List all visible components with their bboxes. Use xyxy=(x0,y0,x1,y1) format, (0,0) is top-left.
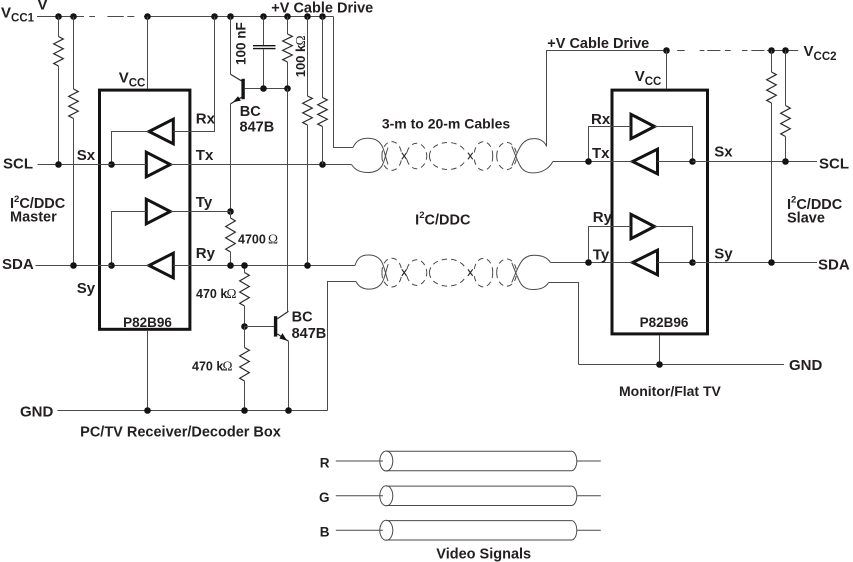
svg-text:Slave: Slave xyxy=(787,210,825,226)
svg-text:+V Cable Drive: +V Cable Drive xyxy=(271,0,373,16)
buffer U1 Rx (points left) xyxy=(149,119,173,144)
svg-text:Sy: Sy xyxy=(714,245,733,262)
svg-text:470 k: 470 k xyxy=(196,287,227,301)
wire rail2 right solid xyxy=(767,50,798,52)
svg-text:SCL: SCL xyxy=(3,156,33,173)
wire GND up to cable-2 lower entry xyxy=(328,282,357,411)
node rail1-Q1C xyxy=(227,13,234,20)
wire video R left lead xyxy=(336,460,383,462)
svg-text:VCC2: VCC2 xyxy=(804,43,837,63)
wire SCL right segment xyxy=(693,161,818,163)
node R6-SDA xyxy=(227,262,234,269)
svg-text:Master: Master xyxy=(10,210,57,226)
node Ty junction xyxy=(227,208,234,215)
wire Sx node to Tx input xyxy=(112,164,147,166)
resistor R2 pull-up SDA (left) xyxy=(73,17,75,90)
node C1-base junction xyxy=(260,85,267,92)
svg-text:PC/TV Receiver/Decoder Box: PC/TV Receiver/Decoder Box xyxy=(80,424,281,440)
node rail1-C1 xyxy=(260,13,267,20)
svg-text:G: G xyxy=(319,490,330,505)
cable 1 right loop xyxy=(512,146,553,173)
svg-text:Ω: Ω xyxy=(223,359,233,374)
wire Q1 collector to rail xyxy=(230,17,232,75)
node U2 Ty-cable junction xyxy=(585,259,592,266)
resistor R4 pull-up to SDA cable side xyxy=(307,17,309,97)
node rail1-Rx xyxy=(211,13,218,20)
svg-text:SCL: SCL xyxy=(819,155,849,172)
wire SCL left segment xyxy=(38,164,112,166)
node rail1-pullA xyxy=(304,13,311,20)
wire cable2 upper exit SDA xyxy=(550,262,588,264)
node GND-U1 xyxy=(144,407,151,414)
svg-text:3-m to 20-m Cables: 3-m to 20-m Cables xyxy=(382,115,511,131)
svg-text:SDA: SDA xyxy=(2,256,34,273)
wire SDA left segment xyxy=(36,265,112,267)
wire U1 Ty pin to node xyxy=(170,211,230,213)
resistor R5 pull-up to SCL cable side xyxy=(322,17,324,98)
cable 1 left loop (funnel) xyxy=(353,138,388,164)
wire U2 Rx output to Sx xyxy=(655,127,693,162)
cable 2 twisted-pair middle xyxy=(382,258,516,287)
wire U1 Rx input from rail xyxy=(173,17,214,132)
IC U2 P82B96 box (right) xyxy=(612,90,708,334)
wire VCC1 rail solid right xyxy=(144,16,334,18)
svg-text:BC: BC xyxy=(240,104,261,120)
svg-text:Rx: Rx xyxy=(591,111,611,128)
node Sx xyxy=(108,161,115,168)
wire U1 VCC pin xyxy=(147,17,149,89)
node U2 Tx-cable junction xyxy=(585,158,592,165)
wire U2 GND pin xyxy=(659,335,661,364)
wire rail to cable-1 upper entry xyxy=(334,17,353,148)
wire U2 VCC pin xyxy=(666,51,668,89)
resistor R6 4700 Ohm (Ty node to SDA) xyxy=(230,212,232,219)
buffer U2 Rx (points right) xyxy=(631,114,655,138)
transistor Q1 BC847B xyxy=(231,74,245,104)
wire U2 Sx to Tx input xyxy=(658,161,693,163)
svg-text:Ty: Ty xyxy=(593,246,610,263)
svg-text:Rx: Rx xyxy=(196,111,216,128)
wire U2 Ry output to Sy xyxy=(655,227,693,263)
svg-text:Tx: Tx xyxy=(592,145,610,162)
transistor Q2 BC847B xyxy=(274,311,289,341)
wire VCC1 rail dash-dot xyxy=(89,16,134,18)
wire cable1 upper exit to +V rail xyxy=(547,51,667,147)
svg-text:Sx: Sx xyxy=(714,144,733,161)
IC U1 P82B96 box (left) xyxy=(100,90,190,329)
wire GND right line xyxy=(579,364,785,366)
resistor R8 470 kOhm (Q2 base to GND) xyxy=(244,327,246,348)
svg-text:Monitor/Flat TV: Monitor/Flat TV xyxy=(619,383,722,399)
resistor R10 pull-up SCL (right) xyxy=(785,51,787,106)
svg-text:Ω: Ω xyxy=(293,35,308,45)
wire cable1 lower exit Tx line xyxy=(553,161,589,163)
cable video cylinder G xyxy=(380,486,577,506)
svg-text:Sx: Sx xyxy=(77,147,96,164)
svg-text:+V Cable Drive: +V Cable Drive xyxy=(547,36,649,52)
svg-text:4700: 4700 xyxy=(238,232,266,246)
node U2 Sx xyxy=(689,158,696,165)
svg-text:GND: GND xyxy=(789,357,823,374)
wire video R right lead xyxy=(577,460,601,462)
node GND-R8 xyxy=(241,407,248,414)
wire U2 Tx output to cable xyxy=(589,161,633,163)
node U2 Sy xyxy=(689,259,696,266)
node rail1-R2 xyxy=(70,13,77,20)
resistor R9 pull-up SDA (right) xyxy=(771,51,773,73)
svg-text:BC: BC xyxy=(292,309,313,325)
svg-text:Ry: Ry xyxy=(593,209,613,226)
node R7-SDA xyxy=(241,262,248,269)
node rail2-R10 xyxy=(782,47,789,54)
svg-text:Video Signals: Video Signals xyxy=(436,547,531,562)
resistor R1 pull-up SCL (left) xyxy=(58,17,60,37)
node R7-Q2base junction xyxy=(241,323,248,330)
wire VCC1 rail solid left xyxy=(37,16,84,18)
cable video cylinder B xyxy=(380,520,577,540)
svg-text:Ty: Ty xyxy=(196,194,213,211)
svg-text:470 k: 470 k xyxy=(192,360,223,374)
capacitor C1 100 nF xyxy=(263,17,265,46)
wire U1 GND pin xyxy=(147,331,149,411)
svg-text:VCC: VCC xyxy=(635,68,662,88)
svg-text:P82B96: P82B96 xyxy=(123,315,172,330)
wire U2 Sy to Ty input xyxy=(658,262,693,264)
node rail1-R1 xyxy=(55,13,62,20)
svg-text:B: B xyxy=(320,524,330,539)
wire Q1 base node down to Q2 collector xyxy=(287,89,289,312)
svg-text:SDA: SDA xyxy=(818,256,850,273)
svg-text:Tx: Tx xyxy=(196,147,214,164)
node SCL-R10 xyxy=(782,158,789,165)
resistor R7 470 kOhm (SDA to Q2 base) xyxy=(244,266,246,273)
node rail1-R100k xyxy=(284,13,291,20)
node SCL-pullB xyxy=(319,161,326,168)
svg-text:847B: 847B xyxy=(292,326,327,342)
node SDA-R9 xyxy=(768,259,775,266)
svg-text:I2C/DDC: I2C/DDC xyxy=(415,210,471,228)
node rail1-VCCpin xyxy=(144,13,151,20)
buffer U1 Ry (points left) xyxy=(149,253,173,278)
svg-text:847B: 847B xyxy=(240,120,275,136)
node Sy xyxy=(108,262,115,269)
svg-text:Ω: Ω xyxy=(227,286,237,301)
wire video G right lead xyxy=(577,495,601,497)
svg-text:100 nF: 100 nF xyxy=(234,22,249,65)
wire U2 Rx input xyxy=(589,127,632,162)
node rail1-pullB xyxy=(319,13,326,20)
svg-text:V: V xyxy=(38,0,48,13)
svg-text:VCC: VCC xyxy=(119,70,146,90)
node rail2-R9 xyxy=(768,47,775,54)
svg-text:VCC1: VCC1 xyxy=(1,4,35,24)
wire U1 Tx output to cable xyxy=(170,164,351,166)
node R4-SDA xyxy=(304,262,311,269)
node GND-U2 xyxy=(656,361,663,368)
cable 2 right loop xyxy=(512,263,549,290)
buffer U2 Ty (points left) xyxy=(633,250,658,275)
svg-text:Sy: Sy xyxy=(77,280,96,297)
cable 2 left loop (funnel) xyxy=(355,255,388,281)
buffer U2 Tx (points left) xyxy=(633,149,658,174)
node SCL-R1 xyxy=(55,161,62,168)
buffer U2 Ry (points right) xyxy=(631,214,655,238)
buffer U1 Tx (points right) xyxy=(146,152,170,177)
wire SDA right segment xyxy=(693,262,818,264)
wire cable2 lower exit to GND xyxy=(549,283,579,365)
node R3-base junction xyxy=(284,85,291,92)
svg-text:100 k: 100 k xyxy=(293,44,308,77)
node SDA-R2 xyxy=(70,262,77,269)
svg-text:P82B96: P82B96 xyxy=(640,315,689,330)
cable video cylinder R xyxy=(380,451,577,471)
wire U1 Ry output to Sy xyxy=(112,265,150,267)
wire video B right lead xyxy=(577,529,601,531)
wire rail2 dash-dot xyxy=(677,50,764,52)
wire video G left lead xyxy=(336,495,383,497)
wire Q2 emitter to GND xyxy=(288,341,290,410)
svg-text:Ry: Ry xyxy=(196,245,216,262)
node GND-Q2e xyxy=(285,407,292,414)
wire Q2 base line xyxy=(245,326,275,328)
wire Q1 emitter down to Ty node xyxy=(230,104,232,212)
wire U1 Ty input from Sy xyxy=(112,212,147,266)
wire U1 Rx output to Sx xyxy=(112,132,150,165)
svg-text:R: R xyxy=(320,455,330,470)
svg-text:Ω: Ω xyxy=(268,232,278,247)
wire Q1 base line xyxy=(245,88,288,90)
wire U1 Ry input from cable xyxy=(173,265,355,267)
svg-text:GND: GND xyxy=(20,404,54,421)
node rail2-VCCpin xyxy=(663,47,670,54)
cable 1 twisted-pair middle xyxy=(382,142,516,171)
wire video B left lead xyxy=(336,529,383,531)
wire U2 Ty output to cable xyxy=(589,262,633,264)
buffer U1 Ty (points right) xyxy=(146,199,170,224)
resistor R3 100 kOhm (rail to Q1 base) xyxy=(287,17,289,35)
wire GND left line xyxy=(57,410,327,412)
wire U2 Ry input xyxy=(589,227,632,263)
